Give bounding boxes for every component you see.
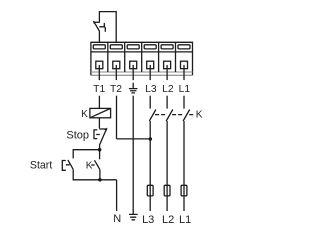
start parallel top rail (73, 150, 99, 159)
svg-text:K: K (196, 110, 203, 121)
wire T2 down (116, 96, 118, 139)
wire T1 to coil (98, 96, 100, 109)
wire L2 down with fuse (166, 121, 168, 211)
terminal 4 wire through screw and stub below block (149, 65, 151, 80)
earth symbol in label row (129, 83, 138, 93)
earth wire down (132, 96, 134, 215)
contactor main contact blade L1 (183, 110, 190, 122)
svg-text:L1: L1 (179, 214, 191, 226)
terminal 1 slot (93, 45, 105, 49)
wire T2 tap to L3 (117, 138, 151, 140)
thermal switch arrowhead (93, 21, 97, 25)
terminal block outer frame (91, 42, 193, 75)
stop button arrowhead (104, 128, 107, 131)
svg-text:L2: L2 (162, 84, 174, 95)
earth symbol bottom (129, 214, 138, 219)
stop button plunger bracket (94, 130, 100, 139)
terminal block bottom rail line (91, 74, 193, 76)
junction dot T2-tap/L3 (149, 137, 153, 141)
contactor main contact blade L2 (166, 110, 173, 122)
terminal block divider line (91, 51, 193, 53)
wire L2 stub (166, 96, 168, 109)
wire to N (116, 180, 118, 211)
thermal switch loop: wire from T1 up (99, 12, 116, 43)
svg-text:T1: T1 (93, 84, 105, 95)
start button blade (68, 160, 73, 169)
fuse F on L2 (164, 185, 170, 196)
svg-text:L3: L3 (145, 84, 157, 95)
fuse F on L1 (181, 185, 187, 196)
K aux bottom wire (99, 170, 101, 180)
svg-text:T2: T2 (110, 84, 122, 95)
wire stop to start-rail junction (99, 146, 101, 160)
svg-text:Start: Start (30, 160, 52, 172)
svg-text:L2: L2 (162, 214, 174, 226)
wire L3 stub (149, 96, 151, 109)
wire L3 down with fuse (149, 121, 151, 211)
terminal 3 slot (127, 45, 139, 49)
terminal 1 screw (96, 61, 103, 68)
svg-text:L1: L1 (179, 84, 191, 95)
terminal 5 slot (161, 45, 173, 49)
svg-text:L3: L3 (142, 214, 154, 226)
terminal 6 screw (181, 61, 188, 68)
terminal 4 screw (147, 61, 154, 68)
stop button seat (99, 128, 106, 130)
svg-text:Stop: Stop (66, 129, 89, 141)
terminal 2 screw (113, 61, 120, 68)
K aux dash (91, 164, 94, 166)
wire start branch bottom (73, 169, 116, 180)
fuse F on L3 (147, 185, 153, 196)
junction dot stop/rail (98, 148, 102, 152)
terminal 6 wire through screw and stub below block (183, 65, 185, 80)
terminal block module bottom line (91, 71, 193, 73)
thermal actuator staircase (99, 23, 105, 32)
coil diagonal (90, 108, 111, 117)
terminal 4 slot (144, 45, 156, 49)
wire L1 stub (183, 96, 185, 109)
svg-text:K: K (81, 109, 88, 120)
K aux contact blade (95, 160, 100, 169)
terminal 2 wire through screw and stub below block (115, 65, 117, 80)
svg-text:N: N (113, 213, 121, 225)
terminal 2 slot (110, 45, 122, 49)
contactor main contact blade L3 (149, 110, 156, 122)
thermal switch contact seat (94, 21, 100, 23)
terminal 3 screw (130, 61, 137, 68)
thermal switch blade (95, 23, 100, 31)
terminal 1 wire through screw and stub below block (98, 65, 100, 80)
junction dot K-aux/rail (98, 178, 102, 182)
start button plunger bracket (62, 161, 69, 171)
contactor link dashed line (155, 114, 193, 116)
stop button blade (99, 130, 106, 146)
terminal 5 wire through screw and stub below block (166, 65, 168, 80)
terminal 6 slot (178, 45, 190, 49)
terminal 5 screw (164, 61, 171, 68)
wire L1 down with fuse (183, 121, 185, 211)
svg-text:K: K (86, 161, 93, 172)
wire thermal switch to terminal T1 (98, 32, 100, 43)
terminal module separators (108, 42, 176, 72)
contactor coil K1 box (90, 108, 111, 117)
wire coil to stop button (98, 118, 100, 129)
terminal 3 wire through screw and stub below block (132, 65, 134, 80)
